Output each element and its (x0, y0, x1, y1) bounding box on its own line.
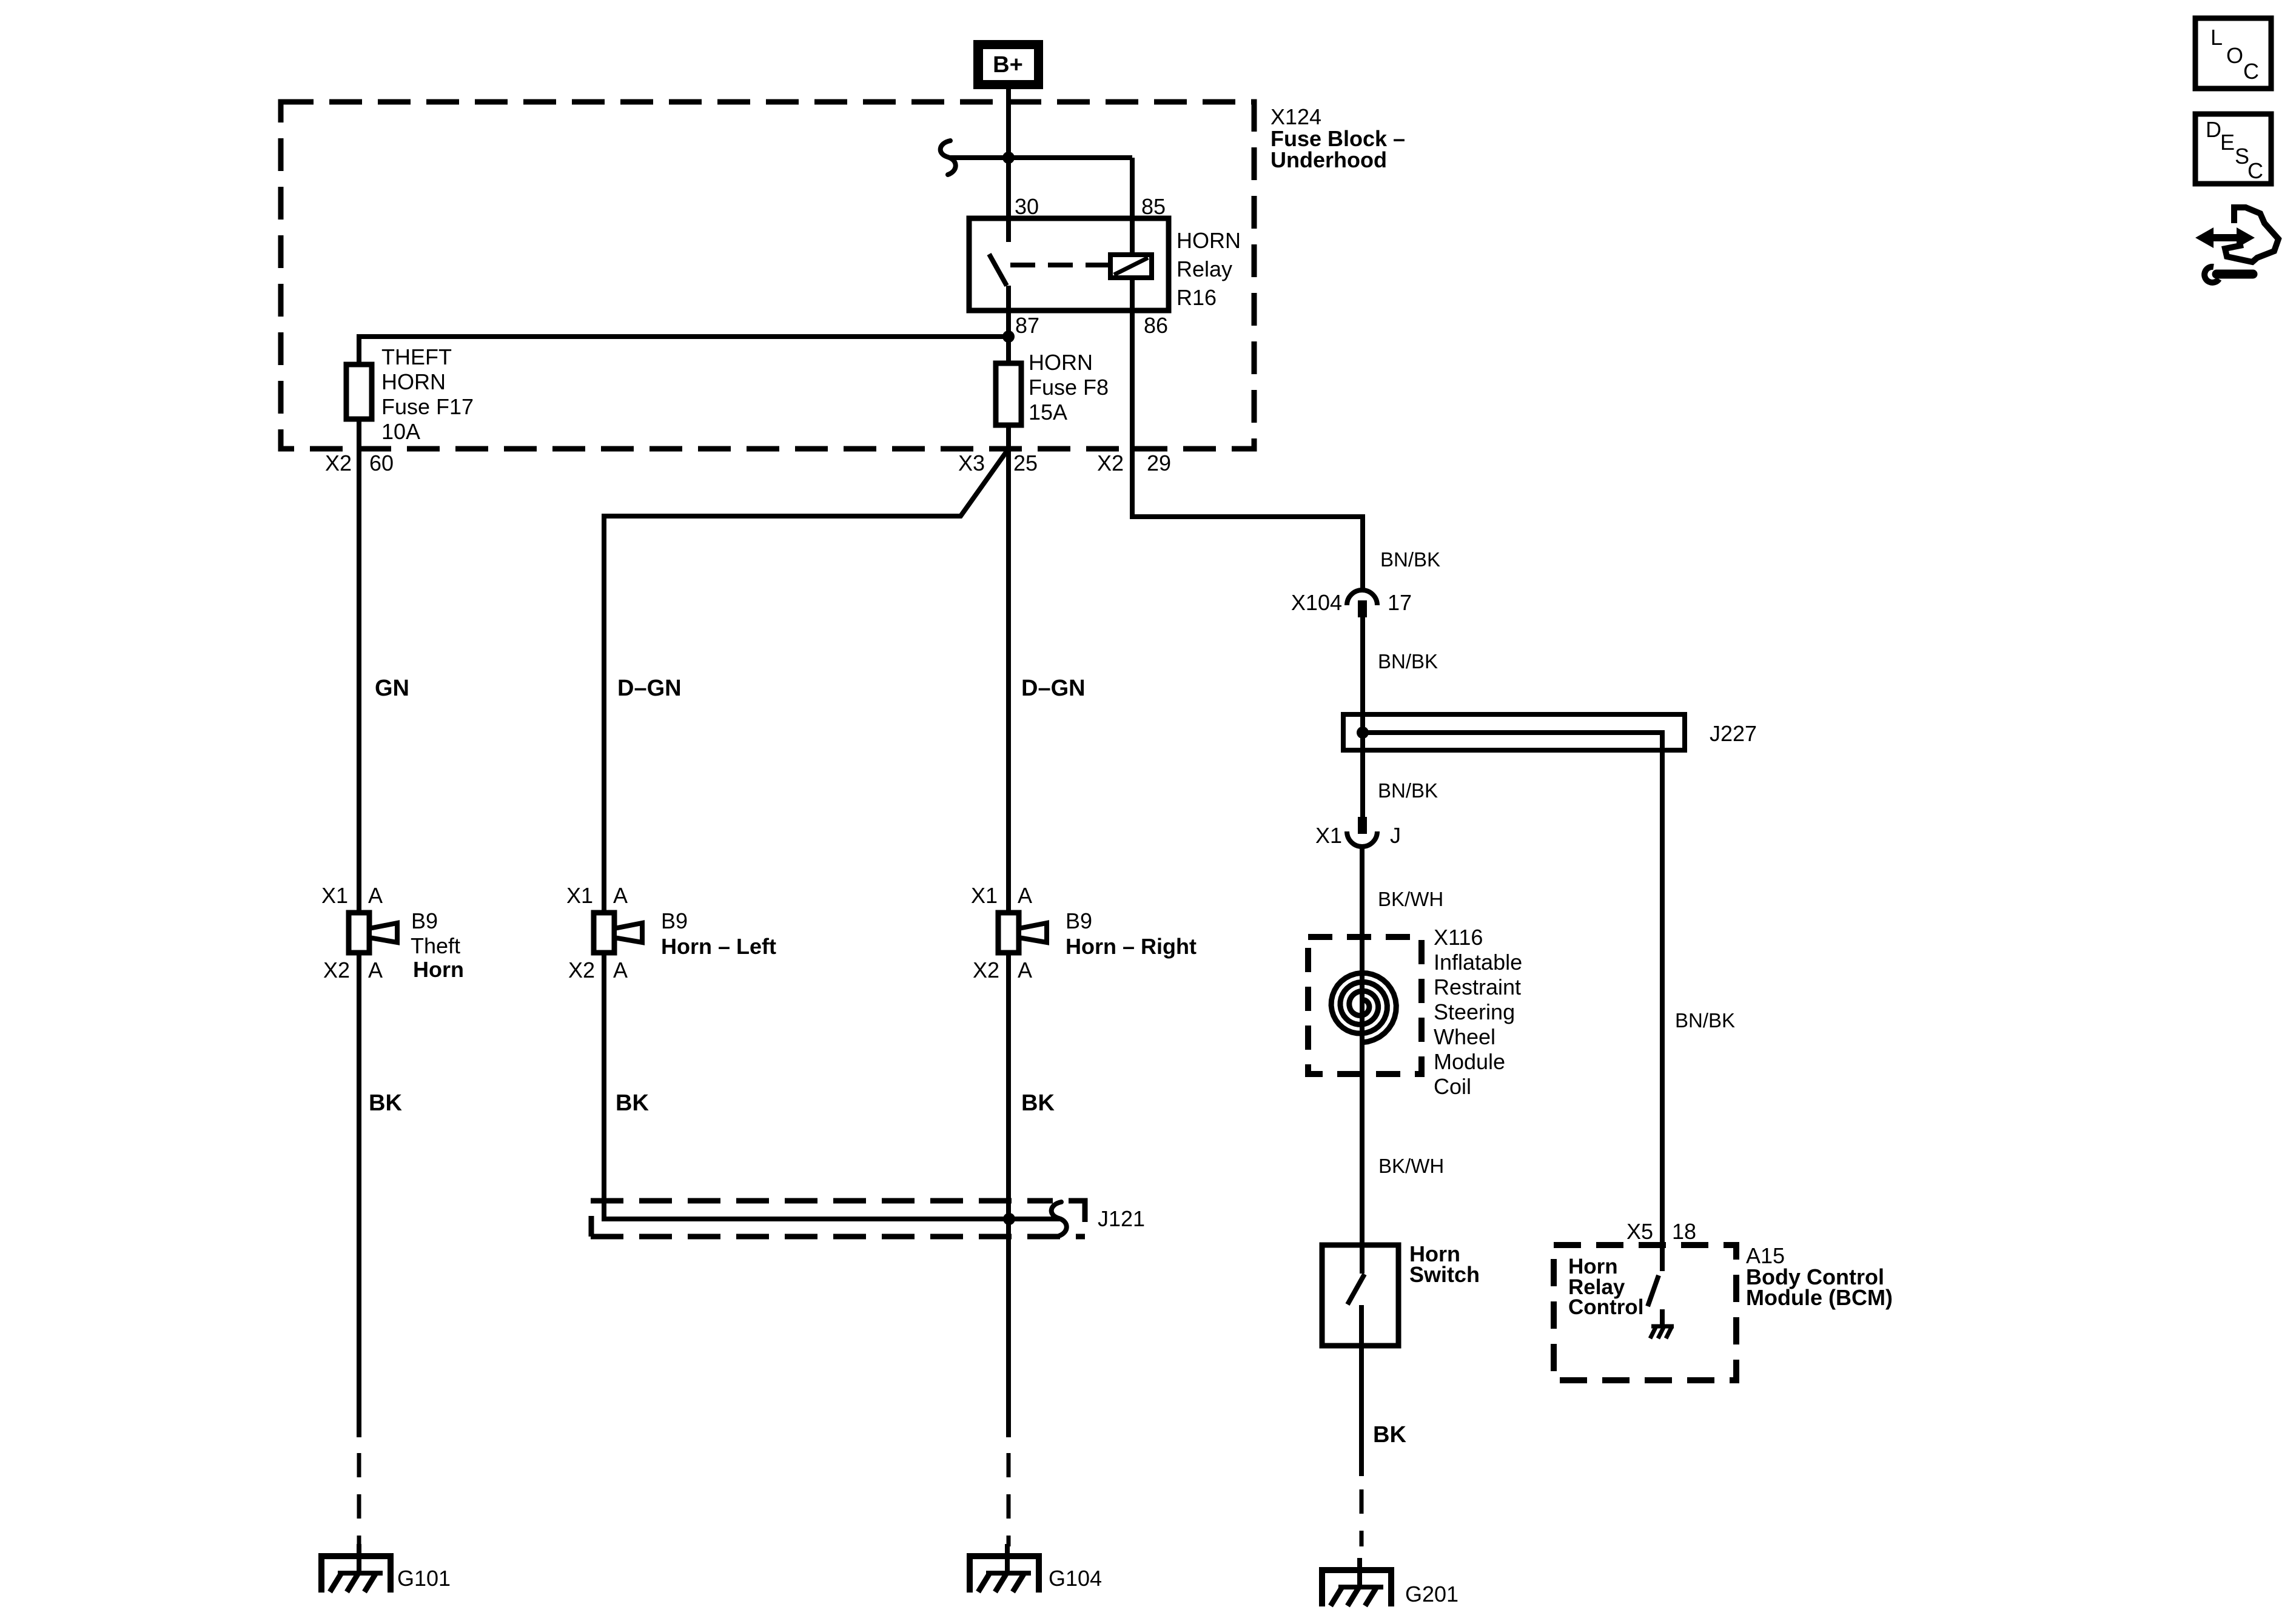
svg-text:X2: X2 (973, 958, 999, 982)
svg-text:X2: X2 (325, 451, 352, 475)
svg-text:Module (BCM): Module (BCM) (1746, 1285, 1893, 1310)
svg-text:GN: GN (375, 676, 409, 701)
svg-text:G101: G101 (397, 1566, 451, 1591)
svg-text:60: 60 (369, 451, 394, 475)
svg-text:B9: B9 (411, 908, 438, 933)
svg-text:E: E (2220, 130, 2235, 155)
svg-text:A: A (368, 958, 383, 982)
svg-text:18: 18 (1672, 1219, 1696, 1244)
svg-text:BK: BK (616, 1090, 649, 1116)
svg-text:BN/BK: BN/BK (1380, 548, 1440, 571)
svg-text:Fuse F8: Fuse F8 (1029, 375, 1109, 400)
svg-text:Wheel: Wheel (1434, 1024, 1495, 1049)
svg-text:A: A (613, 883, 628, 908)
svg-text:85: 85 (1141, 194, 1166, 219)
svg-text:X2: X2 (323, 958, 350, 982)
svg-text:X124: X124 (1271, 104, 1321, 129)
svg-text:BK/WH: BK/WH (1378, 888, 1443, 910)
svg-text:Relay: Relay (1177, 257, 1232, 281)
svg-text:O: O (2226, 43, 2243, 68)
svg-text:THEFT: THEFT (381, 344, 452, 369)
svg-text:A: A (1018, 883, 1032, 908)
svg-text:17: 17 (1388, 590, 1412, 615)
svg-text:B9: B9 (1066, 908, 1092, 933)
svg-text:Horn: Horn (413, 957, 464, 982)
svg-text:Steering: Steering (1434, 999, 1515, 1024)
svg-text:X1: X1 (321, 883, 348, 908)
svg-text:Fuse F17: Fuse F17 (381, 394, 474, 419)
svg-text:BN/BK: BN/BK (1675, 1009, 1735, 1032)
svg-text:A: A (1018, 958, 1032, 982)
svg-text:X5: X5 (1626, 1219, 1653, 1244)
svg-text:BK: BK (1021, 1090, 1055, 1116)
svg-text:X104: X104 (1291, 590, 1342, 615)
svg-text:Module: Module (1434, 1049, 1505, 1074)
svg-text:Inflatable: Inflatable (1434, 950, 1522, 975)
svg-text:J227: J227 (1710, 721, 1757, 746)
svg-text:BK: BK (1373, 1422, 1406, 1448)
svg-text:X2: X2 (1097, 451, 1124, 475)
svg-text:15A: 15A (1029, 400, 1067, 425)
svg-text:BN/BK: BN/BK (1378, 650, 1438, 673)
svg-text:Switch: Switch (1409, 1262, 1480, 1287)
svg-text:BK: BK (369, 1090, 402, 1116)
svg-text:D–GN: D–GN (1021, 676, 1086, 701)
svg-text:G201: G201 (1405, 1582, 1458, 1606)
svg-text:Horn – Left: Horn – Left (661, 934, 776, 959)
svg-text:B+: B+ (993, 52, 1023, 78)
svg-text:X1: X1 (971, 883, 998, 908)
svg-text:D–GN: D–GN (617, 676, 682, 701)
svg-text:25: 25 (1013, 451, 1038, 475)
svg-text:Restraint: Restraint (1434, 975, 1521, 999)
svg-text:87: 87 (1015, 313, 1039, 338)
svg-text:BN/BK: BN/BK (1378, 779, 1438, 802)
svg-text:X1: X1 (1315, 823, 1342, 848)
svg-text:C: C (2247, 158, 2263, 183)
svg-text:B9: B9 (661, 908, 688, 933)
svg-text:X3: X3 (958, 451, 985, 475)
svg-text:30: 30 (1015, 194, 1039, 219)
svg-text:HORN: HORN (381, 369, 446, 394)
svg-text:A: A (368, 883, 383, 908)
svg-text:Control: Control (1568, 1295, 1643, 1319)
svg-text:HORN: HORN (1177, 228, 1241, 253)
svg-text:X2: X2 (568, 958, 595, 982)
svg-text:X1: X1 (566, 883, 593, 908)
svg-text:29: 29 (1147, 451, 1171, 475)
svg-text:86: 86 (1144, 313, 1168, 338)
svg-text:BK/WH: BK/WH (1378, 1155, 1444, 1177)
svg-text:X116: X116 (1434, 925, 1483, 950)
svg-text:J121: J121 (1098, 1206, 1145, 1231)
svg-text:HORN: HORN (1029, 350, 1093, 375)
svg-text:J: J (1390, 823, 1401, 848)
svg-text:Theft: Theft (411, 933, 460, 958)
svg-text:Horn – Right: Horn – Right (1066, 934, 1197, 959)
svg-text:L: L (2210, 25, 2223, 50)
svg-text:A: A (613, 958, 628, 982)
svg-text:Coil: Coil (1434, 1074, 1471, 1099)
svg-text:C: C (2243, 59, 2259, 84)
svg-text:R16: R16 (1177, 285, 1217, 310)
svg-text:Underhood: Underhood (1271, 147, 1387, 172)
svg-text:10A: 10A (381, 419, 420, 444)
svg-text:D: D (2206, 117, 2221, 142)
svg-text:G104: G104 (1049, 1566, 1102, 1591)
